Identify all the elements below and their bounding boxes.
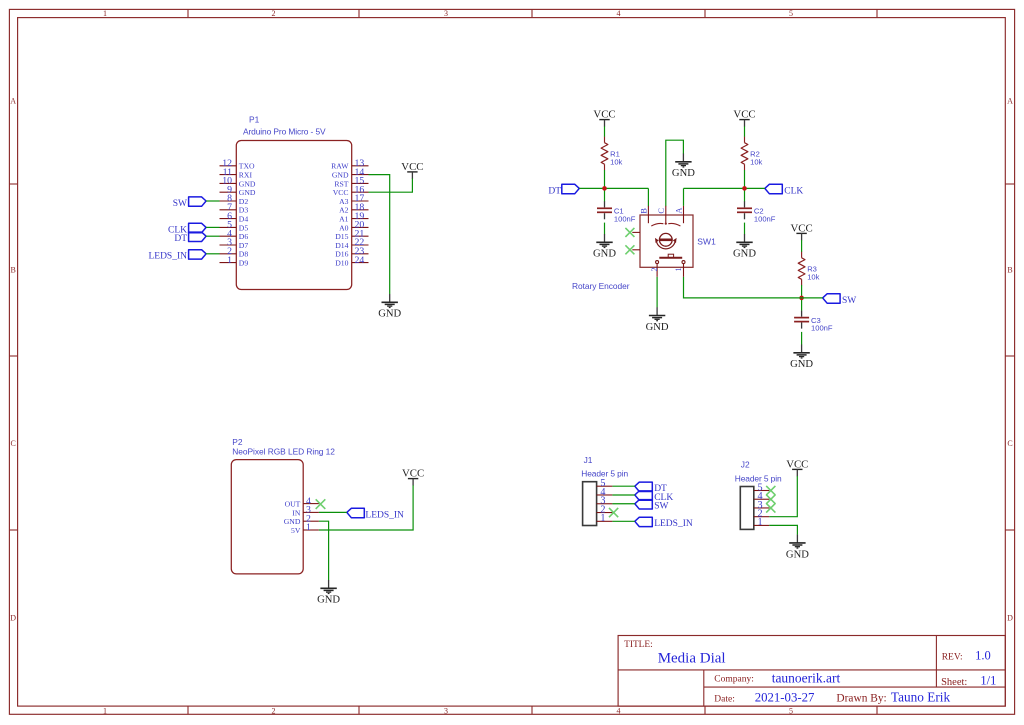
svg-text:A2: A2	[339, 206, 349, 215]
svg-text:A1: A1	[339, 215, 349, 224]
svg-text:D: D	[1007, 614, 1013, 623]
svg-text:100nF: 100nF	[614, 214, 636, 223]
svg-text:VCC: VCC	[402, 468, 424, 480]
svg-text:Tauno Erik: Tauno Erik	[891, 690, 951, 705]
svg-text:VCC: VCC	[401, 161, 423, 173]
svg-text:D2: D2	[239, 197, 249, 206]
svg-text:Date:: Date:	[714, 695, 735, 705]
svg-text:GND: GND	[378, 309, 401, 320]
svg-text:5V: 5V	[291, 526, 301, 535]
svg-text:B: B	[11, 266, 16, 275]
svg-text:10k: 10k	[750, 157, 762, 166]
svg-text:C: C	[657, 208, 666, 214]
svg-text:1: 1	[306, 522, 311, 533]
svg-text:GND: GND	[284, 517, 301, 526]
svg-text:D14: D14	[335, 241, 348, 250]
svg-text:GND: GND	[332, 171, 349, 180]
svg-text:GND: GND	[790, 359, 813, 370]
svg-text:D: D	[10, 614, 16, 623]
svg-text:VCC: VCC	[333, 188, 349, 197]
svg-text:A: A	[675, 208, 684, 214]
svg-text:GND: GND	[239, 179, 256, 188]
svg-text:GND: GND	[317, 595, 340, 606]
svg-text:Header 5 pin: Header 5 pin	[581, 469, 628, 479]
svg-text:Drawn By:: Drawn By:	[836, 693, 886, 705]
svg-text:GND: GND	[786, 549, 809, 560]
svg-text:A3: A3	[339, 197, 349, 206]
svg-text:SW: SW	[173, 199, 187, 209]
svg-text:5: 5	[789, 706, 793, 715]
svg-text:GND: GND	[672, 168, 695, 179]
svg-text:1: 1	[103, 9, 107, 18]
svg-text:taunoerik.art: taunoerik.art	[772, 671, 841, 686]
svg-text:D3: D3	[239, 206, 249, 215]
svg-text:D9: D9	[239, 259, 249, 268]
svg-text:SW: SW	[842, 296, 856, 306]
svg-text:24: 24	[355, 255, 365, 266]
svg-text:REV:: REV:	[942, 653, 963, 663]
svg-text:2: 2	[272, 706, 276, 715]
svg-text:RXI: RXI	[239, 171, 253, 180]
svg-text:2: 2	[650, 267, 659, 271]
svg-text:B: B	[1007, 266, 1012, 275]
svg-text:C: C	[11, 439, 16, 448]
svg-text:CLK: CLK	[784, 186, 803, 196]
svg-text:GND: GND	[239, 188, 256, 197]
svg-text:D8: D8	[239, 250, 249, 259]
svg-text:VCC: VCC	[786, 458, 808, 470]
svg-text:VCC: VCC	[733, 109, 755, 121]
svg-text:100nF: 100nF	[811, 324, 833, 333]
svg-text:TXO: TXO	[239, 162, 255, 171]
svg-text:4: 4	[617, 9, 621, 18]
svg-text:A0: A0	[339, 223, 349, 232]
svg-text:DT: DT	[174, 234, 187, 244]
svg-text:LEDS_IN: LEDS_IN	[148, 252, 187, 262]
svg-text:D15: D15	[335, 232, 348, 241]
svg-text:1: 1	[103, 706, 107, 715]
svg-text:D5: D5	[239, 223, 249, 232]
svg-text:D6: D6	[239, 232, 249, 241]
svg-text:RAW: RAW	[331, 162, 349, 171]
svg-text:D7: D7	[239, 241, 249, 250]
svg-text:OUT: OUT	[285, 500, 301, 509]
svg-text:3: 3	[444, 706, 448, 715]
svg-text:1: 1	[758, 517, 763, 528]
svg-text:A: A	[10, 97, 16, 106]
svg-text:1: 1	[674, 267, 683, 271]
svg-text:J2: J2	[741, 460, 750, 470]
svg-text:VCC: VCC	[790, 222, 812, 234]
svg-text:TITLE:: TITLE:	[624, 640, 653, 650]
svg-text:Sheet:: Sheet:	[941, 677, 967, 688]
svg-text:RST: RST	[334, 179, 348, 188]
svg-text:C: C	[1007, 439, 1012, 448]
svg-text:4: 4	[617, 706, 621, 715]
svg-text:1: 1	[227, 255, 232, 266]
svg-text:Company:: Company:	[714, 675, 754, 685]
svg-text:2021-03-27: 2021-03-27	[755, 691, 815, 705]
svg-text:Rotary Encoder: Rotary Encoder	[572, 281, 630, 291]
svg-text:GND: GND	[646, 322, 669, 333]
svg-text:B: B	[640, 208, 649, 214]
svg-text:P1: P1	[249, 114, 260, 124]
svg-text:VCC: VCC	[593, 109, 615, 121]
svg-text:10k: 10k	[807, 272, 819, 281]
svg-text:2: 2	[272, 9, 276, 18]
svg-text:D4: D4	[239, 215, 249, 224]
svg-text:Arduino Pro Micro - 5V: Arduino Pro Micro - 5V	[243, 126, 326, 136]
svg-text:LEDS_IN: LEDS_IN	[654, 519, 693, 529]
svg-text:DT: DT	[548, 186, 561, 196]
svg-text:1/1: 1/1	[980, 674, 996, 688]
svg-text:D16: D16	[335, 250, 348, 259]
svg-text:IN: IN	[292, 508, 301, 517]
svg-text:100nF: 100nF	[754, 214, 776, 223]
svg-text:SW1: SW1	[697, 237, 716, 247]
svg-text:NeoPixel RGB LED Ring 12: NeoPixel RGB LED Ring 12	[232, 446, 335, 456]
svg-text:1: 1	[600, 513, 605, 524]
svg-text:D10: D10	[335, 259, 348, 268]
svg-text:LEDS_IN: LEDS_IN	[365, 510, 404, 520]
svg-text:GND: GND	[733, 249, 756, 260]
svg-text:5: 5	[789, 9, 793, 18]
svg-text:10k: 10k	[610, 157, 622, 166]
svg-text:1.0: 1.0	[975, 649, 991, 663]
svg-text:SW: SW	[654, 502, 668, 512]
svg-text:A: A	[1007, 97, 1013, 106]
svg-text:3: 3	[444, 9, 448, 18]
svg-text:J1: J1	[584, 455, 593, 465]
svg-text:GND: GND	[593, 249, 616, 260]
svg-text:Media Dial: Media Dial	[658, 651, 726, 667]
